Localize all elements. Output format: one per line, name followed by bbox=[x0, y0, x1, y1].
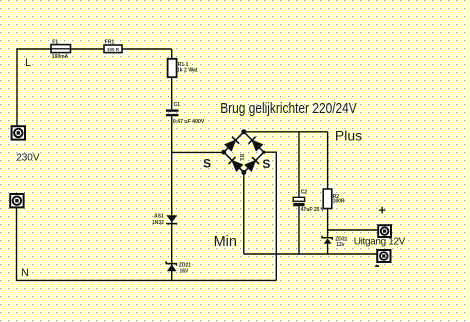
svg-text:B1: B1 bbox=[238, 154, 244, 161]
label plus sign bbox=[378, 203, 386, 218]
wire bridge bottom down bbox=[243, 172, 245, 254]
bridge diode bottom-right bbox=[245, 157, 259, 171]
wire N: terminal down, bottom run to node under bridge right bbox=[17, 207, 277, 280]
svg-text:12v: 12v bbox=[336, 242, 345, 248]
svg-text:0.47 uF 400V: 0.47 uF 400V bbox=[173, 119, 205, 125]
bridge diode bottom-left bbox=[229, 157, 243, 171]
wire main vertical node bbox=[171, 49, 173, 280]
svg-text:C2: C2 bbox=[301, 190, 308, 196]
svg-text:AS1: AS1 bbox=[154, 214, 164, 220]
svg-text:1N32: 1N32 bbox=[152, 220, 164, 226]
wire branch to bridge left vertex bbox=[172, 151, 224, 153]
label S right bbox=[262, 157, 270, 171]
wire R2/ZD1 column bbox=[327, 132, 329, 254]
bridge diode top-right bbox=[248, 137, 262, 151]
zener diode ZD1 bbox=[322, 236, 348, 248]
wire L: from terminal up and right to main vertical bbox=[17, 49, 172, 126]
svg-text:+: + bbox=[378, 203, 386, 218]
svg-text:Brug gelijkrichter 220/24V: Brug gelijkrichter 220/24V bbox=[220, 100, 357, 116]
label Uitgang 12V bbox=[354, 237, 406, 248]
svg-text:L: L bbox=[25, 57, 31, 69]
terminal 230V N bbox=[10, 194, 23, 207]
capacitor C1 bbox=[166, 102, 205, 125]
resistor R2 bbox=[323, 189, 345, 209]
label 230V bbox=[16, 153, 40, 164]
wire Plus top: bridge top to right column bbox=[244, 131, 328, 133]
label S left bbox=[203, 156, 211, 170]
node right vertex bbox=[262, 151, 265, 154]
label L bbox=[25, 57, 31, 69]
resistor R1 bbox=[168, 59, 198, 77]
bridge rectifier B1 edges bbox=[224, 132, 264, 173]
capacitor C2 electrolytic bbox=[293, 190, 325, 213]
node top vertex bbox=[241, 129, 246, 134]
svg-text:Min: Min bbox=[214, 234, 237, 250]
resistor FR1 bbox=[104, 40, 122, 53]
terminal 230V L bbox=[12, 126, 25, 139]
label N bbox=[21, 267, 29, 279]
svg-text:100mA: 100mA bbox=[52, 54, 69, 60]
label minus sign bbox=[375, 265, 379, 267]
diode AS1 bbox=[152, 214, 177, 226]
svg-text:230V: 230V bbox=[16, 153, 40, 164]
wire C2 column bbox=[298, 132, 300, 254]
bridge label B1 rotated bbox=[238, 154, 244, 161]
svg-text:16V: 16V bbox=[180, 268, 190, 274]
svg-text:Plus: Plus bbox=[335, 127, 362, 143]
svg-text:S: S bbox=[203, 156, 211, 170]
node left vertex bbox=[221, 150, 226, 155]
svg-text:F1: F1 bbox=[52, 39, 58, 45]
label Plus bbox=[335, 127, 362, 143]
svg-text:FR1: FR1 bbox=[105, 40, 115, 46]
label Min bbox=[214, 234, 237, 250]
svg-text:47uF 25 V: 47uF 25 V bbox=[301, 207, 325, 213]
node bottom vertex bbox=[241, 170, 246, 175]
bridge diode top-left bbox=[225, 137, 239, 151]
svg-text:1k 2 Wat: 1k 2 Wat bbox=[177, 67, 198, 73]
svg-text:100R: 100R bbox=[333, 199, 345, 205]
title Brug gelijkrichter 220/24V bbox=[220, 100, 357, 116]
zener diode ZD2 bbox=[166, 261, 191, 274]
fuse F1 bbox=[51, 39, 71, 60]
wire to plus terminal bbox=[328, 229, 379, 231]
wire bridge right vertex down bbox=[264, 152, 277, 280]
terminal output plus bbox=[378, 225, 391, 237]
terminal output minus bbox=[377, 250, 390, 262]
svg-text:S: S bbox=[262, 157, 270, 171]
svg-text:Uitgang 12V: Uitgang 12V bbox=[354, 237, 406, 248]
wire Min bus bbox=[244, 253, 377, 255]
svg-text:C1: C1 bbox=[174, 102, 181, 108]
svg-text:100 R: 100 R bbox=[107, 47, 120, 52]
svg-text:N: N bbox=[21, 267, 29, 279]
